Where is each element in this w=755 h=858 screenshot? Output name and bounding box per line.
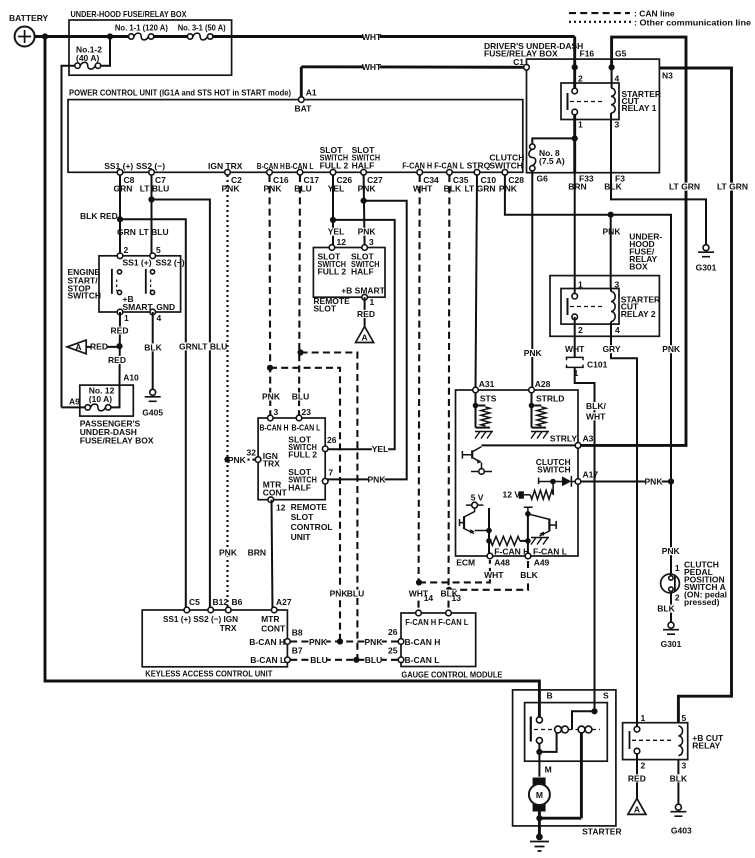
wire LT BLU to keyless B12 — [152, 200, 210, 611]
ground G403 — [675, 804, 681, 810]
svg-text:1: 1 — [641, 713, 646, 723]
control unit pin 7 — [322, 478, 328, 484]
label WHT A48 — [486, 571, 502, 579]
svg-text:5: 5 — [682, 713, 687, 723]
node F-CAN L junction — [446, 587, 452, 593]
wire G5 loop to LT GRN / STRLY A3 — [578, 37, 686, 445]
+B cut relay — [623, 723, 688, 760]
terminal C28 — [502, 170, 508, 176]
fuse No.1-2 40A — [80, 62, 95, 69]
svg-text:B-CAN L: B-CAN L — [292, 422, 321, 432]
node fuse No.1-2 branch junction — [107, 33, 113, 39]
node A17/PNK junction — [668, 478, 674, 484]
wire GRN C8 to engine start/stop switch pin 2 — [119, 175, 121, 256]
svg-text:YEL: YEL — [372, 444, 389, 454]
svg-text:7: 7 — [328, 468, 333, 478]
wire hold-in coil to ground node — [580, 733, 583, 818]
svg-text:BLK: BLK — [444, 183, 462, 193]
fuse No.12 10A — [90, 404, 105, 411]
node PNK branch — [361, 198, 367, 204]
switch pin 5 — [150, 253, 156, 259]
label RED below node — [109, 356, 125, 364]
svg-text:HALF: HALF — [352, 160, 375, 170]
svg-text:SMART: SMART — [123, 302, 154, 312]
node RED branch to arrow A — [116, 343, 122, 349]
label LT GRN 1 — [669, 183, 700, 191]
wire PNK to relay 2 pin 3 — [610, 215, 612, 289]
label WHT on BAT wire — [363, 63, 379, 71]
svg-text:KEYLESS ACCESS CONTROL UNIT: KEYLESS ACCESS CONTROL UNIT — [145, 668, 273, 678]
battery — [15, 27, 35, 47]
svg-text:B-CAN H: B-CAN H — [260, 422, 289, 432]
svg-text:A: A — [634, 805, 640, 815]
label PNK pin 7 wire — [368, 476, 384, 484]
svg-text:PNK: PNK — [358, 183, 377, 193]
svg-text:1: 1 — [675, 563, 680, 573]
svg-text:No. 3-1 (50 A): No. 3-1 (50 A) — [178, 23, 226, 33]
label BLK — [605, 183, 621, 191]
wire WHT F-CAN H C34 to gauge pin 14 — [419, 175, 420, 613]
relay 2 pin 2 contact — [572, 314, 578, 320]
wire PNK branch to control unit pin 7 — [325, 201, 407, 480]
svg-text:A9: A9 — [69, 397, 80, 407]
node F16/C1 junction — [572, 64, 578, 70]
starter cut relay 2 — [561, 289, 619, 325]
svg-text:BLU: BLU — [292, 392, 309, 402]
arrow A (to +B cut relay) — [67, 340, 86, 354]
svg-text:1: 1 — [370, 297, 375, 307]
fuse No.3-1 50A — [193, 33, 208, 40]
svg-text:SS1 (+): SS1 (+) — [123, 258, 152, 268]
terminal C2 — [225, 170, 231, 176]
svg-text:BLK: BLK — [604, 182, 622, 192]
svg-text:LT GRN: LT GRN — [717, 182, 748, 192]
svg-text:2: 2 — [578, 325, 583, 335]
passenger's under-dash fuse/relay box — [80, 385, 134, 416]
wire battery to starter B terminal — [45, 37, 539, 718]
remote slot pin 12 — [329, 245, 335, 251]
svg-text:No. 1-1 (120 A): No. 1-1 (120 A) — [115, 23, 168, 33]
relay 1 pin 1 contact — [572, 109, 578, 115]
wire BLK clutch pedal switch to G301 — [670, 593, 672, 622]
svg-text:3: 3 — [615, 280, 620, 290]
wire — [539, 817, 581, 820]
wire to fuse No.8 — [532, 138, 574, 144]
svg-text:G301: G301 — [661, 639, 682, 649]
svg-text:SS2 (−): SS2 (−) — [136, 161, 165, 171]
legend other-communication line sample — [569, 21, 632, 23]
svg-text:3: 3 — [369, 237, 374, 247]
svg-text:C1: C1 — [513, 57, 524, 67]
wire relay 1 pin 3 to F3 — [610, 113, 612, 173]
svg-text:YEL: YEL — [328, 227, 345, 237]
svg-text:SLOT: SLOT — [291, 512, 314, 522]
svg-text:WHT: WHT — [362, 62, 382, 72]
svg-text:LT BLU: LT BLU — [139, 227, 169, 237]
wire YEL branch to control unit pin 26 — [325, 220, 395, 449]
control unit pin 26 — [322, 446, 328, 452]
wire N3 LT GRN to +B cut relay pin 5 — [659, 68, 731, 723]
wire arrow A to RED node — [86, 346, 119, 348]
svg-text:B-CAN H: B-CAN H — [405, 637, 441, 647]
svg-text:G5: G5 — [615, 49, 627, 59]
svg-text:G301: G301 — [696, 263, 717, 273]
clutch pedal position switch A — [661, 574, 680, 593]
svg-text:A31: A31 — [479, 379, 495, 389]
ECM terminal A31 — [473, 387, 479, 393]
svg-text:4: 4 — [615, 74, 620, 84]
wire PNK C28 to clutch pedal position switch — [505, 175, 671, 576]
wire B-CAN H branch to keyless/gauge bus — [270, 368, 340, 642]
transistor Q1 STRLY driver — [471, 450, 473, 458]
svg-text:FULL 2: FULL 2 — [288, 450, 317, 460]
svg-text:23: 23 — [302, 407, 312, 417]
svg-text:SWITCH: SWITCH — [537, 465, 571, 475]
label BLU B-CAN L — [292, 393, 308, 401]
wire BLK/WHT C101 to starter S terminal — [575, 367, 595, 711]
svg-text:GND: GND — [156, 302, 175, 312]
terminal C17 — [297, 170, 303, 176]
svg-text:PNK: PNK — [499, 183, 518, 193]
svg-text:SLOT: SLOT — [313, 304, 336, 314]
keyless terminal C5 — [184, 607, 190, 613]
ground G405 — [150, 389, 156, 395]
svg-text:FUSE/RELAY BOX: FUSE/RELAY BOX — [80, 436, 154, 446]
relay 2 contact-coil dashes — [570, 306, 604, 308]
driver's under-dash fuse/relay box — [527, 59, 660, 173]
starter solenoid coils — [555, 726, 562, 733]
svg-text:STRLD: STRLD — [536, 394, 564, 404]
label PNK B-CAN H bus — [330, 590, 346, 598]
label PNK B-CAN H — [263, 393, 279, 401]
remote slot — [313, 248, 385, 298]
svg-text:BOX: BOX — [629, 261, 648, 271]
wire LT BLU C7 to engine start/stop switch pin 5 — [151, 175, 153, 256]
svg-text:2: 2 — [641, 760, 646, 770]
svg-text:BRN: BRN — [248, 547, 266, 557]
terminal C27 — [361, 170, 367, 176]
wire relay 1 pin 1 to F33 — [573, 115, 576, 173]
ECM terminal A48 — [487, 553, 493, 559]
label LT GRN 2 — [717, 183, 748, 191]
svg-text:B-CAN H: B-CAN H — [249, 637, 285, 647]
svg-text:BRN: BRN — [568, 182, 586, 192]
label BLK A49 — [521, 571, 537, 579]
label GRN on keyless wire — [180, 342, 196, 350]
wire motor to starter ground — [538, 812, 541, 838]
diode and 12V pull-up in ECM clutch switch input — [539, 478, 553, 485]
node LT BLU branch — [148, 196, 154, 202]
svg-text:G403: G403 — [671, 825, 692, 835]
svg-text:A49: A49 — [534, 557, 550, 567]
svg-text:F-CAN H: F-CAN H — [402, 160, 432, 170]
relay 1 pin 2 contact — [572, 88, 578, 94]
terminal C8 — [117, 170, 123, 176]
triangle A (+B cut relay) — [628, 798, 646, 814]
wire F-CAN H rail to A48 — [488, 508, 490, 556]
svg-text:BAT: BAT — [295, 103, 313, 113]
keyless terminal B6 — [226, 607, 232, 613]
svg-text:GAUGE CONTROL MODULE: GAUGE CONTROL MODULE — [401, 669, 502, 679]
ECM terminal A3 — [575, 443, 581, 449]
starter cut relay 1 — [561, 83, 619, 120]
wire F33 BRN to relay 2 pin 1 — [574, 173, 576, 297]
label PNK G6 wire — [525, 349, 541, 357]
svg-text:PNK: PNK — [358, 227, 377, 237]
svg-text:LT BLU: LT BLU — [140, 183, 170, 193]
svg-text:13: 13 — [452, 593, 462, 603]
label LT BLU on keyless wire — [197, 342, 228, 350]
switch pin 2 — [117, 253, 123, 259]
svg-text:3: 3 — [682, 760, 687, 770]
starter motor — [533, 778, 546, 786]
12V source square and resistor — [519, 491, 524, 498]
wire coil return to M node — [539, 733, 556, 752]
svg-text:A: A — [362, 333, 368, 343]
wire STRLY to ECM pin A3 — [482, 444, 579, 446]
svg-text:4: 4 — [615, 325, 620, 335]
svg-text:F-CAN L: F-CAN L — [533, 546, 567, 556]
svg-text:GRN: GRN — [117, 227, 136, 237]
svg-text:G405: G405 — [142, 407, 163, 417]
node motor ground junction — [536, 815, 542, 821]
svg-text:RED: RED — [628, 773, 646, 783]
svg-text:LT GRN: LT GRN — [464, 183, 495, 193]
wire RED +B cut relay pin 2 to triangle A — [636, 754, 638, 799]
keyless terminal B12 — [208, 607, 214, 613]
svg-text:F-CAN H: F-CAN H — [494, 546, 529, 556]
svg-text:B7: B7 — [292, 646, 303, 656]
node GRN branch — [117, 216, 123, 222]
svg-text:TRX: TRX — [263, 458, 280, 468]
ECM terminal A28 — [529, 387, 535, 393]
starter contact — [536, 717, 542, 723]
svg-text:5 V: 5 V — [471, 492, 484, 502]
label PNK IGN TRX — [220, 548, 236, 556]
svg-text:12: 12 — [337, 237, 347, 247]
keyless terminal B7 — [285, 657, 291, 663]
svg-text:RELAY 1: RELAY 1 — [622, 103, 657, 113]
svg-text:SWITCH: SWITCH — [68, 290, 102, 300]
svg-text:ECM: ECM — [456, 557, 475, 567]
label PNK clutch pedal wire — [663, 345, 679, 353]
keyless terminal B8 — [285, 639, 291, 645]
svg-text:PNK: PNK — [662, 546, 681, 556]
keyless terminal A27 — [271, 607, 277, 613]
wire fuse No.12 to A9 — [62, 406, 86, 408]
power control unit box — [68, 100, 523, 173]
svg-text:B-CAN L: B-CAN L — [405, 655, 440, 665]
svg-text:(10 A): (10 A) — [89, 394, 112, 404]
node F-CAN H junction — [416, 579, 422, 585]
wire PNK IGN TRX C2 to keyless B6 (dotted) — [226, 175, 228, 610]
svg-text:SWITCH: SWITCH — [489, 160, 523, 170]
node B-CAN L branch — [297, 349, 303, 355]
svg-text:LT GRN: LT GRN — [669, 182, 700, 192]
relay 2 pin 1 contact — [572, 293, 578, 299]
svg-text:3: 3 — [274, 407, 279, 417]
svg-text:PNK: PNK — [219, 547, 238, 557]
label YEL — [328, 228, 344, 236]
svg-text:SS1 (+): SS1 (+) — [104, 161, 133, 171]
svg-text:BATTERY: BATTERY — [9, 13, 49, 23]
wire B-CAN H keyless B8 to gauge pin 26 — [290, 640, 398, 642]
wire LT GRN STRQ C10 to ECM A31 — [476, 175, 478, 390]
wire G5 to relay 1 pin 4 — [611, 67, 613, 88]
relay 1 contact-coil dashes — [570, 101, 604, 103]
wire BLU B-CAN L C17 to control unit pin 23 — [299, 175, 300, 418]
svg-text:A48: A48 — [494, 557, 510, 567]
svg-text:2: 2 — [675, 592, 680, 602]
svg-text:A27: A27 — [276, 597, 292, 607]
label BLU B-CAN L bus — [347, 590, 363, 598]
svg-text:RELAY 2: RELAY 2 — [621, 309, 656, 319]
svg-text:IGN TRX: IGN TRX — [208, 161, 243, 171]
label BRN — [569, 183, 585, 191]
svg-text:(7.5 A): (7.5 A) — [539, 156, 565, 166]
label WHT gauge 14 — [410, 590, 426, 598]
wire PNK B-CAN H C16 to control unit pin 3 — [268, 175, 271, 418]
svg-text:M: M — [536, 790, 543, 800]
svg-text:2: 2 — [578, 74, 583, 84]
wire RED switch pin 1 to fuse No.12 A10 — [119, 312, 122, 385]
svg-text:PNK: PNK — [262, 392, 281, 402]
svg-text:UNIT: UNIT — [291, 532, 312, 542]
svg-text:F-CAN H F-CAN L: F-CAN H F-CAN L — [405, 617, 468, 627]
svg-text:C101: C101 — [587, 360, 608, 370]
resistor STS pull-down with chassis ground — [475, 392, 477, 428]
svg-text:4: 4 — [157, 313, 162, 323]
svg-text:PNK: PNK — [264, 183, 283, 193]
svg-text:GRN: GRN — [114, 183, 133, 193]
wire BLK RED fuse No.1-2 to A9 — [62, 66, 75, 408]
svg-text:FULL 2: FULL 2 — [318, 267, 347, 277]
wire PNK C27 to remote slot pin 3 — [364, 175, 365, 248]
starter ground — [536, 834, 543, 841]
svg-text:STARTER: STARTER — [582, 826, 622, 836]
svg-text:A17: A17 — [583, 469, 599, 479]
svg-text:GRN: GRN — [179, 341, 198, 351]
svg-text:S: S — [603, 690, 609, 700]
relay 2 contact bar — [567, 298, 569, 315]
node B-CAN L bus junction — [353, 657, 359, 663]
svg-text:PNK: PNK — [524, 348, 543, 358]
svg-text:12: 12 — [276, 503, 286, 513]
wire F-CAN L rail to A49 — [527, 514, 529, 556]
svg-text:RED: RED — [90, 342, 108, 352]
svg-text:BLK: BLK — [670, 773, 688, 783]
svg-text:PNK: PNK — [330, 589, 349, 599]
control unit pin 12 — [268, 497, 274, 503]
svg-text:RED: RED — [357, 309, 375, 319]
svg-text:HALF: HALF — [351, 267, 374, 277]
svg-text:(40 A): (40 A) — [76, 53, 99, 63]
under-hood fuse/relay box — [69, 20, 232, 75]
gauge terminal 25 — [398, 657, 404, 663]
svg-text:32: 32 — [247, 448, 257, 458]
svg-text:YEL: YEL — [328, 183, 345, 193]
gauge terminal 13 — [446, 610, 452, 616]
switch SS1 contacts — [117, 270, 121, 274]
control unit pin 32 — [255, 457, 261, 463]
node B-CAN H branch — [267, 365, 273, 371]
wire F-CAN H to ECM A48 — [419, 560, 490, 582]
remote slot control unit — [258, 418, 325, 500]
resistor between F-CAN H and F-CAN L rails — [491, 536, 520, 545]
svg-text:B-CAN L: B-CAN L — [250, 655, 285, 665]
svg-text:WHT: WHT — [586, 411, 606, 421]
svg-text:LT BLU: LT BLU — [198, 341, 228, 351]
terminal C26 — [330, 170, 336, 176]
svg-text:BLK RED: BLK RED — [80, 211, 118, 221]
svg-text:GRY: GRY — [602, 344, 620, 354]
gauge control module — [401, 613, 476, 667]
gauge terminal 14 — [416, 610, 422, 616]
label BLK/WHT — [585, 402, 606, 410]
terminal C34 — [417, 170, 423, 176]
label WHT on battery feed — [363, 33, 379, 41]
wire F16 to relay 1 pin 2 — [573, 37, 576, 92]
wire B-CAN L keyless B7 to gauge pin 25 — [290, 659, 398, 661]
svg-text:CONT: CONT — [263, 487, 288, 497]
node starter M junction — [536, 749, 542, 755]
ECM terminal A49 — [525, 553, 531, 559]
svg-text:BLU: BLU — [347, 589, 364, 599]
starter solenoid box — [525, 703, 608, 762]
5V supply node — [466, 504, 484, 506]
svg-text:CONTROL: CONTROL — [291, 522, 333, 532]
wire GRN to keyless C5 — [120, 219, 186, 610]
svg-text:WHT: WHT — [413, 183, 433, 193]
svg-text:B: B — [547, 690, 553, 700]
ground G301 (clutch pedal switch) — [668, 622, 674, 628]
svg-text:A: A — [75, 342, 81, 352]
svg-text:14: 14 — [424, 593, 434, 603]
svg-text:26: 26 — [388, 627, 398, 637]
internal ground symbol below Q1 — [471, 471, 492, 473]
svg-text:3: 3 — [615, 120, 620, 130]
wire RED remote slot pin 1 to triangle A — [364, 297, 366, 326]
resistor STRLD pull-down with chassis ground — [531, 392, 533, 428]
label BLK gauge 13 — [441, 590, 457, 598]
wire WHT A1 BAT to C1 — [301, 65, 526, 68]
fuse No.8 7.5A — [529, 149, 536, 165]
svg-text:POWER CONTROL UNIT (IG1A and S: POWER CONTROL UNIT (IG1A and STS HOT in … — [69, 88, 291, 98]
svg-text:SS2 (−): SS2 (−) — [156, 258, 185, 268]
switch pin 1 — [117, 309, 123, 315]
wire S to pull-in coil — [572, 711, 595, 729]
ECM — [456, 390, 579, 556]
svg-text:: Other communication line: : Other communication line — [634, 17, 751, 27]
node IGN TRX branch — [224, 457, 230, 463]
svg-text:WHT: WHT — [484, 570, 504, 580]
svg-text:BLK: BLK — [657, 604, 675, 614]
fuse No.1-1 120A — [134, 33, 149, 40]
svg-text:A3: A3 — [583, 434, 594, 444]
ECM terminal A17 — [575, 479, 581, 485]
svg-text:HALF: HALF — [288, 482, 311, 492]
svg-text:RED: RED — [108, 355, 126, 365]
svg-text:WHT: WHT — [362, 32, 382, 42]
node PNK branch to starter cut relay 2 pin 3 — [608, 212, 614, 218]
label PNK relay2 pin3 wire — [603, 228, 619, 236]
svg-text:BLU: BLU — [310, 655, 327, 665]
wire to fuse No.1-2 — [101, 37, 110, 66]
connector C101 — [567, 357, 584, 367]
node starter S junction — [591, 708, 597, 714]
control unit pin 3 — [268, 415, 274, 421]
switch pin 4 — [150, 309, 156, 315]
